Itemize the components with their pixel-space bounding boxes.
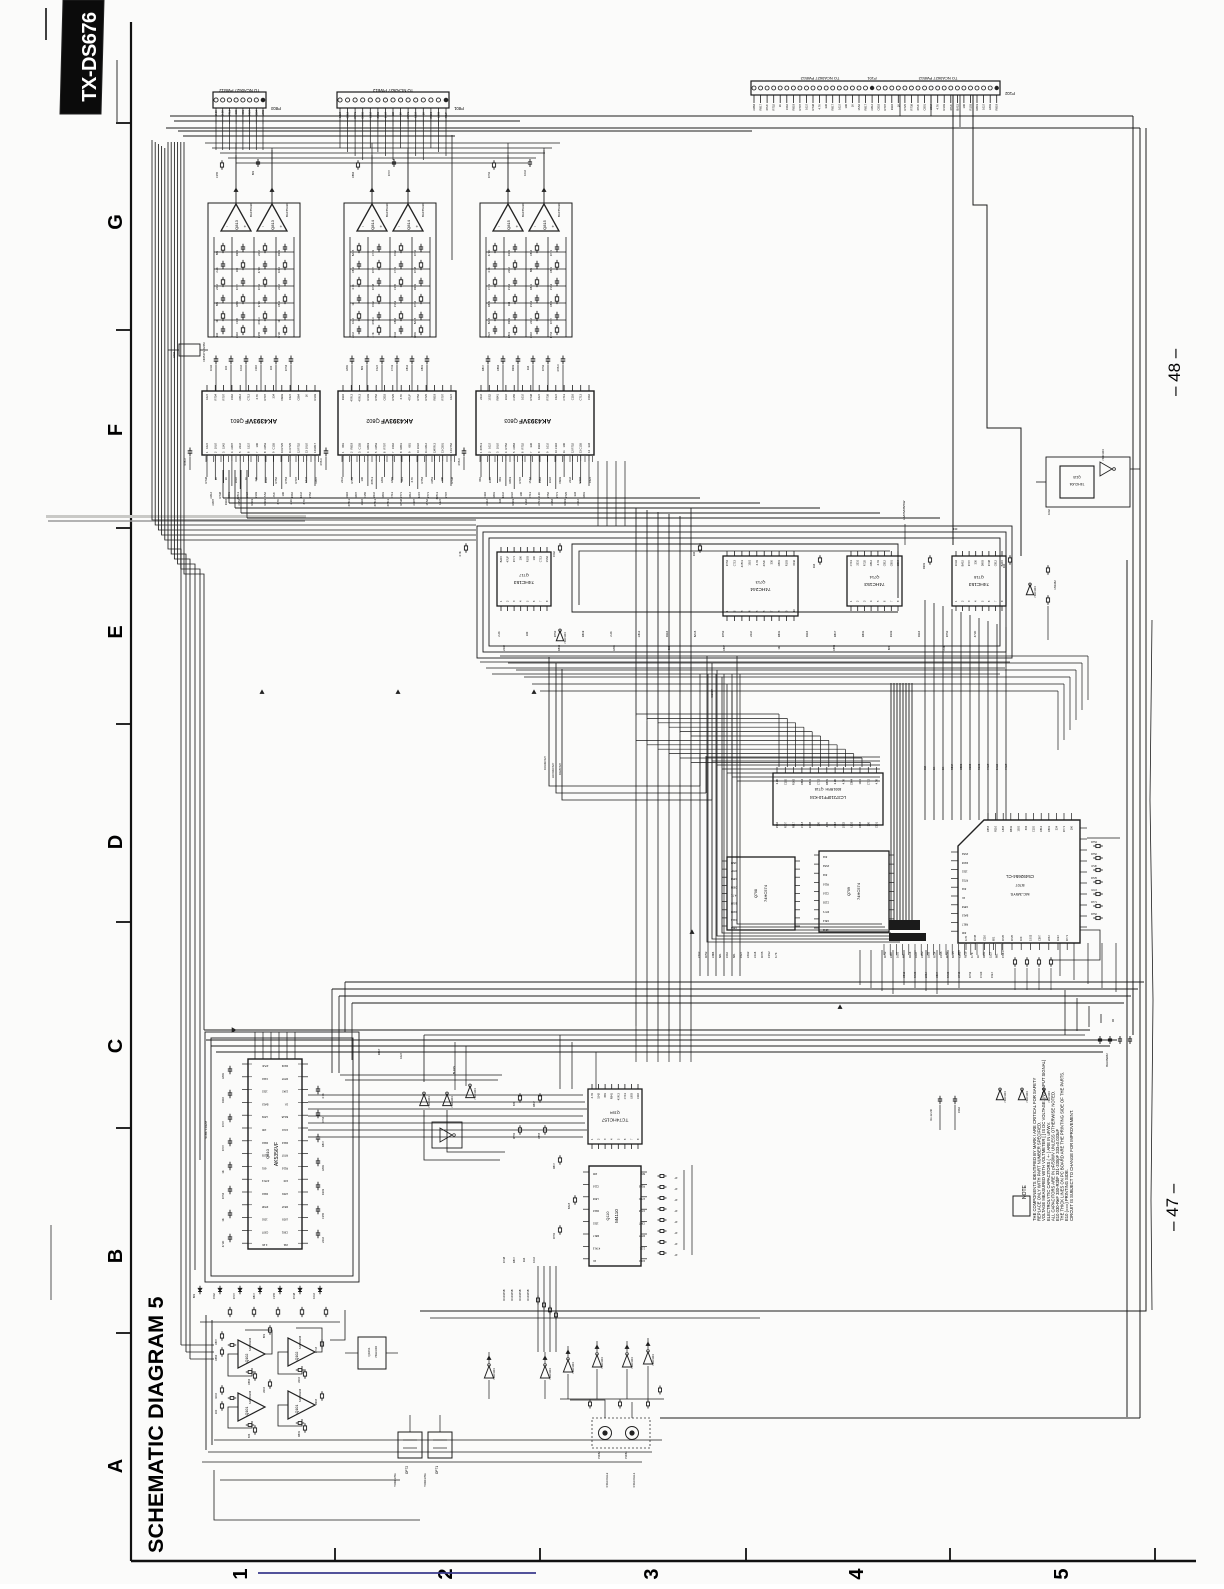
svg-text:R752: R752: [487, 171, 491, 178]
svg-text:D: D: [105, 835, 127, 849]
svg-text:C812: C812: [209, 492, 213, 499]
svg-text:R817: R817: [532, 1100, 536, 1107]
svg-text:R771: R771: [512, 555, 516, 562]
svg-text:R752: R752: [945, 951, 949, 958]
svg-text:1SS2: 1SS2: [549, 283, 553, 290]
svg-text:681: 681: [192, 1293, 196, 1298]
svg-text:1K: 1K: [214, 477, 218, 480]
svg-text:P3061: P3061: [624, 1451, 628, 1459]
svg-text:2.2K: 2.2K: [215, 267, 219, 273]
svg-text:100: 100: [1070, 825, 1074, 830]
svg-text:C853: C853: [549, 300, 553, 307]
svg-text:4.7K: 4.7K: [351, 284, 355, 290]
svg-text:102J: 102J: [261, 1090, 267, 1094]
svg-text:Q814: Q814: [370, 219, 375, 230]
svg-text:74HC574: 74HC574: [763, 884, 768, 902]
svg-text:152J: 152J: [438, 498, 442, 504]
svg-text:C864: C864: [296, 394, 300, 401]
svg-text:1542: 1542: [230, 394, 234, 400]
svg-text:R752: R752: [961, 878, 968, 882]
svg-text:C116: C116: [235, 331, 239, 338]
svg-text:C713: C713: [623, 1092, 627, 1099]
svg-text:152J: 152J: [375, 364, 379, 370]
svg-text:47/6.3: 47/6.3: [370, 477, 374, 485]
svg-text:100: 100: [519, 491, 523, 496]
svg-text:BA15: BA15: [955, 103, 959, 110]
svg-text:R817: R817: [961, 922, 968, 926]
svg-text:47/6.3: 47/6.3: [457, 458, 461, 466]
svg-text:C116: C116: [982, 935, 986, 941]
svg-text:C801: C801: [889, 559, 893, 566]
svg-text:BA15: BA15: [567, 1202, 571, 1209]
svg-text:74HC153: 74HC153: [514, 579, 535, 585]
svg-text:C713: C713: [866, 778, 870, 785]
svg-text:1SS2: 1SS2: [507, 283, 511, 290]
svg-text:C155: C155: [358, 443, 362, 450]
svg-text:C116: C116: [554, 443, 558, 450]
svg-text:+: +: [516, 224, 519, 229]
svg-text:TO NCA0627 PWB12: TO NCA0627 PWB12: [372, 88, 413, 93]
svg-text:R754: R754: [549, 331, 553, 338]
svg-text:C713: C713: [371, 249, 375, 256]
svg-text:223J: 223J: [856, 559, 860, 565]
svg-text:1542: 1542: [792, 559, 796, 565]
svg-text:C864: C864: [393, 317, 397, 324]
svg-text:R707: R707: [798, 104, 802, 111]
svg-text:R771: R771: [1091, 901, 1097, 904]
svg-text:152J: 152J: [730, 861, 736, 865]
svg-text:103J: 103J: [312, 1292, 316, 1298]
svg-text:R103: R103: [321, 1188, 325, 1195]
svg-text:R819: R819: [511, 499, 515, 506]
svg-text:L803: L803: [1001, 825, 1005, 831]
svg-text:47UF: 47UF: [986, 763, 990, 770]
svg-text:C713: C713: [538, 555, 542, 562]
svg-text:C812: C812: [424, 443, 428, 450]
svg-text:102J: 102J: [1056, 935, 1060, 941]
svg-text:1542: 1542: [725, 952, 729, 958]
svg-text:C713: C713: [732, 559, 736, 566]
svg-text:R707: R707: [232, 1292, 236, 1299]
svg-text:C155: C155: [512, 394, 516, 401]
svg-text:C853: C853: [730, 877, 737, 881]
svg-text:1542: 1542: [290, 492, 294, 498]
svg-text:R116: R116: [908, 951, 912, 958]
svg-text:C116: C116: [636, 1092, 640, 1099]
svg-text:47UF: 47UF: [949, 104, 953, 111]
svg-text:223J: 223J: [507, 266, 511, 272]
svg-text:C116: C116: [833, 821, 837, 827]
svg-text:152J: 152J: [988, 952, 992, 958]
svg-text:223J: 223J: [297, 1377, 301, 1383]
svg-text:TC74HC157: TC74HC157: [601, 1117, 628, 1123]
svg-text:R103: R103: [785, 559, 789, 566]
svg-text:BA15: BA15: [281, 1115, 288, 1119]
svg-text:330: 330: [1002, 563, 1006, 568]
svg-text:1542: 1542: [524, 499, 528, 505]
svg-text:C853: C853: [537, 1132, 541, 1139]
svg-text:R752: R752: [413, 249, 417, 256]
svg-text:47/6.3: 47/6.3: [432, 443, 436, 451]
svg-text:681: 681: [215, 301, 219, 306]
svg-text:B707: B707: [1016, 883, 1025, 887]
svg-text:BA15: BA15: [413, 317, 417, 324]
svg-text:3: 3: [641, 1568, 663, 1579]
svg-text:L803: L803: [282, 1218, 288, 1222]
svg-text:1542: 1542: [822, 928, 828, 932]
svg-text:330: 330: [215, 332, 219, 337]
svg-text:102J: 102J: [487, 442, 491, 448]
svg-text:74HCU04: 74HCU04: [651, 1354, 655, 1366]
svg-text:D903: D903: [507, 317, 511, 324]
svg-text:1542: 1542: [282, 1090, 288, 1094]
svg-text:74HCU04: 74HCU04: [571, 1362, 575, 1374]
svg-text:R754: R754: [1091, 841, 1097, 844]
svg-text:R752: R752: [296, 443, 300, 450]
svg-text:Q101: Q101: [295, 1405, 299, 1414]
svg-text:4.7K: 4.7K: [255, 394, 259, 400]
svg-text:4.7K: 4.7K: [590, 1093, 594, 1099]
svg-text:103J: 103J: [501, 491, 505, 497]
svg-text:C713: C713: [247, 394, 251, 401]
svg-text:CIRCUIT IS SUBJECT TO CHANGE F: CIRCUIT IS SUBJECT TO CHANGE FOR IMPROVE…: [1069, 1110, 1074, 1221]
svg-text:334: 334: [822, 855, 827, 859]
svg-text:102J: 102J: [414, 111, 418, 117]
svg-text:R754: R754: [221, 1192, 225, 1199]
svg-text:334: 334: [812, 563, 816, 568]
svg-text:R817: R817: [481, 364, 485, 371]
svg-text:C853: C853: [959, 763, 963, 770]
svg-text:MC-3/BYS: MC-3/BYS: [1010, 892, 1029, 897]
svg-text:681: 681: [732, 953, 736, 958]
svg-text:R841: R841: [808, 778, 812, 785]
svg-text:C116: C116: [254, 364, 258, 371]
svg-text:1542: 1542: [538, 477, 542, 483]
svg-text:L803: L803: [345, 365, 349, 371]
svg-text:C155: C155: [822, 901, 829, 905]
svg-text:C801: C801: [957, 951, 961, 958]
svg-text:LRCKDCS27: LRCKDCS27: [551, 762, 555, 778]
svg-text:C853: C853: [383, 394, 387, 401]
svg-text:C116: C116: [592, 1184, 598, 1188]
svg-text:BLR2N: BLR2N: [452, 1066, 456, 1074]
svg-text:C807: C807: [214, 1338, 218, 1345]
svg-text:74HCU04: 74HCU04: [630, 1357, 634, 1369]
svg-text:B: B: [105, 1249, 127, 1263]
svg-text:100: 100: [214, 1409, 218, 1414]
svg-text:102J: 102J: [338, 111, 342, 117]
svg-text:R819: R819: [349, 443, 353, 450]
svg-text:C853: C853: [263, 443, 267, 450]
svg-text:R817: R817: [950, 763, 954, 770]
svg-text:C713: C713: [390, 364, 394, 371]
svg-text:47UF: 47UF: [257, 300, 261, 307]
svg-text:R754: R754: [284, 477, 288, 484]
svg-text:1K: 1K: [305, 394, 309, 397]
svg-text:C713: C713: [487, 283, 491, 290]
svg-text:10UJ: 10UJ: [995, 763, 999, 770]
svg-text:NJM5532M: NJM5532M: [248, 1391, 252, 1404]
svg-text:L803: L803: [926, 952, 930, 958]
svg-text:1K: 1K: [421, 112, 425, 115]
svg-text:R752: R752: [308, 492, 312, 499]
svg-text:C801: C801: [507, 331, 511, 338]
svg-text:C864: C864: [214, 1354, 218, 1361]
svg-text:R817: R817: [512, 1256, 516, 1263]
svg-text:681: 681: [360, 365, 364, 370]
svg-text:Q709: Q709: [847, 887, 851, 896]
svg-text:681: 681: [408, 442, 412, 447]
svg-text:C807: C807: [211, 499, 215, 506]
svg-text:C713: C713: [849, 559, 853, 566]
svg-text:BA15: BA15: [961, 559, 965, 566]
svg-text:681: 681: [251, 170, 255, 175]
svg-text:47/6.3: 47/6.3: [386, 499, 390, 507]
svg-text:C155: C155: [579, 443, 583, 450]
svg-text:10UJ: 10UJ: [416, 442, 420, 449]
svg-text:R754: R754: [933, 951, 937, 958]
svg-text:47UF: 47UF: [262, 1064, 269, 1068]
svg-text:Q814: Q814: [406, 219, 411, 230]
svg-text:AK4393VF: AK4393VF: [519, 417, 551, 424]
svg-text:R752: R752: [772, 104, 776, 111]
svg-text:334: 334: [507, 301, 511, 306]
svg-text:C812: C812: [405, 364, 409, 371]
svg-text:74HC244: 74HC244: [750, 586, 771, 592]
svg-text:R738: R738: [909, 104, 913, 111]
svg-text:C853: C853: [986, 825, 990, 832]
svg-text:C812: C812: [346, 112, 350, 119]
svg-text:4.7K: 4.7K: [731, 894, 737, 898]
svg-text:100: 100: [224, 365, 228, 370]
svg-text:2.2K: 2.2K: [214, 110, 218, 116]
svg-text:R738: R738: [292, 1292, 296, 1299]
svg-text:Q115: Q115: [1073, 475, 1081, 479]
svg-text:R725: R725: [424, 394, 428, 401]
svg-text:R738: R738: [811, 104, 815, 111]
svg-text:R738: R738: [399, 499, 403, 506]
svg-text:C155: C155: [939, 951, 943, 958]
svg-text:NJM5532M: NJM5532M: [248, 1338, 252, 1351]
svg-text:C801: C801: [875, 821, 879, 828]
svg-text:1SS2: 1SS2: [841, 821, 845, 828]
svg-text:1542: 1542: [212, 1293, 216, 1299]
svg-text:681: 681: [215, 250, 219, 255]
svg-text:1SS2: 1SS2: [1028, 934, 1032, 941]
svg-text:C864: C864: [730, 926, 737, 930]
svg-text:R817: R817: [252, 1292, 256, 1299]
svg-text:47UF: 47UF: [408, 394, 412, 401]
svg-text:1542: 1542: [597, 1092, 601, 1098]
svg-text:1SS2: 1SS2: [393, 300, 397, 307]
svg-text:47/6.3: 47/6.3: [261, 1179, 269, 1183]
svg-text:+: +: [280, 224, 283, 229]
svg-text:NJM5532M: NJM5532M: [298, 1389, 302, 1402]
svg-text:R707: R707: [518, 477, 522, 484]
svg-text:10UJ: 10UJ: [954, 559, 958, 566]
svg-text:47UF: 47UF: [1004, 763, 1008, 770]
svg-text:47/6.3: 47/6.3: [592, 1246, 600, 1250]
svg-text:R103: R103: [507, 249, 511, 256]
svg-text:R707: R707: [281, 1154, 288, 1158]
svg-text:L803: L803: [850, 821, 854, 827]
svg-text:681: 681: [992, 936, 996, 941]
svg-text:681: 681: [261, 1166, 266, 1170]
svg-text:102J: 102J: [747, 559, 751, 565]
svg-text:R819: R819: [975, 104, 979, 111]
svg-text:L803: L803: [282, 1192, 288, 1196]
svg-text:223J: 223J: [340, 476, 344, 482]
svg-text:47UF: 47UF: [638, 1197, 645, 1201]
svg-text:74HCU04: 74HCU04: [600, 1357, 604, 1369]
svg-text:R103: R103: [889, 630, 893, 637]
svg-text:C864: C864: [512, 443, 516, 450]
svg-text:R817: R817: [377, 1048, 381, 1055]
svg-text:TO NCA0627 PWB12: TO NCA0627 PWB12: [800, 76, 839, 81]
svg-text:R752: R752: [570, 443, 574, 450]
svg-text:NCB471-R22M: NCB471-R22M: [204, 1121, 208, 1139]
svg-text:4.7K: 4.7K: [276, 499, 280, 505]
svg-text:10UJ: 10UJ: [496, 442, 500, 449]
svg-text:334: 334: [1024, 825, 1028, 830]
svg-text:330: 330: [254, 476, 258, 481]
svg-text:C: C: [105, 1039, 127, 1053]
svg-text:R771: R771: [353, 112, 357, 119]
svg-text:R819: R819: [487, 300, 491, 307]
svg-text:+: +: [244, 224, 247, 229]
svg-text:R707: R707: [549, 317, 553, 324]
svg-text:5: 5: [1051, 1568, 1073, 1579]
svg-text:10UJ: 10UJ: [393, 331, 397, 338]
svg-text:330: 330: [974, 559, 978, 564]
svg-text:1K: 1K: [285, 1102, 288, 1106]
svg-text:C155: C155: [783, 778, 787, 785]
svg-text:C5492654-CL: C5492654-CL: [1005, 874, 1034, 879]
svg-text:100: 100: [532, 555, 536, 560]
svg-text:330: 330: [961, 931, 966, 935]
svg-text:P803: P803: [270, 106, 280, 111]
svg-text:10UJ: 10UJ: [209, 364, 213, 371]
svg-text:R841: R841: [610, 1092, 614, 1099]
svg-text:1SS352: 1SS352: [1053, 580, 1057, 590]
svg-text:BLR2N1B2: BLR2N1B2: [1105, 1053, 1109, 1067]
svg-text:R752: R752: [504, 443, 508, 450]
svg-text:4.7K: 4.7K: [410, 477, 414, 483]
svg-text:C812: C812: [351, 266, 355, 273]
svg-text:R819: R819: [791, 104, 795, 111]
svg-text:R725: R725: [760, 951, 764, 958]
svg-text:BA15: BA15: [951, 951, 955, 958]
svg-text:Q102: Q102: [245, 1354, 249, 1363]
svg-text:R752: R752: [449, 443, 453, 450]
svg-text:681: 681: [603, 1092, 607, 1097]
svg-text:R116: R116: [805, 630, 809, 637]
svg-text:152J: 152J: [288, 393, 292, 399]
svg-text:Q803: Q803: [504, 417, 517, 423]
svg-text:103J: 103J: [261, 1218, 267, 1222]
svg-text:COAXIAL1: COAXIAL1: [632, 1472, 636, 1487]
svg-text:10UJ: 10UJ: [213, 442, 217, 449]
svg-text:C812: C812: [822, 919, 829, 923]
svg-text:102J: 102J: [537, 393, 541, 399]
svg-text:R771: R771: [399, 492, 403, 499]
svg-text:AK4393VF: AK4393VF: [381, 417, 413, 424]
svg-text:R752: R752: [1091, 853, 1097, 856]
svg-text:C801: C801: [1047, 825, 1051, 832]
svg-text:D903: D903: [280, 394, 284, 401]
svg-text:4.7K: 4.7K: [875, 779, 879, 785]
svg-text:1542: 1542: [222, 443, 226, 449]
svg-text:1SS2: 1SS2: [767, 951, 771, 958]
svg-text:D903: D903: [361, 112, 365, 119]
svg-text:1K: 1K: [221, 1218, 225, 1221]
svg-text:TX-DS676: TX-DS676: [79, 12, 101, 102]
svg-text:R1016SB: R1016SB: [510, 1289, 514, 1300]
svg-text:R738: R738: [987, 559, 991, 566]
svg-text:C713: C713: [537, 499, 541, 506]
svg-text:47/6.3: 47/6.3: [479, 443, 483, 451]
svg-text:Q815: Q815: [542, 219, 547, 230]
svg-text:681: 681: [640, 1172, 645, 1176]
svg-text:R752: R752: [416, 394, 420, 401]
svg-text:C155: C155: [272, 443, 276, 450]
svg-text:2.2K: 2.2K: [221, 110, 225, 116]
svg-text:10UJ: 10UJ: [638, 1259, 645, 1263]
svg-text:C713: C713: [390, 492, 394, 499]
svg-text:102J: 102J: [399, 1052, 403, 1058]
svg-text:1K: 1K: [593, 1259, 596, 1263]
svg-text:R752: R752: [541, 364, 545, 371]
svg-text:R725: R725: [288, 443, 292, 450]
svg-text:R725: R725: [903, 104, 907, 111]
svg-text:C812: C812: [870, 104, 874, 111]
svg-text:C807: C807: [1038, 934, 1042, 941]
svg-text:C864: C864: [550, 499, 554, 506]
svg-text:47/6.3: 47/6.3: [358, 394, 362, 402]
svg-text:R707: R707: [235, 283, 239, 290]
svg-text:74HCU04: 74HCU04: [492, 1368, 496, 1380]
svg-text:334: 334: [923, 765, 927, 770]
svg-text:BA15: BA15: [961, 914, 968, 918]
svg-text:R725: R725: [1001, 934, 1005, 941]
svg-text:C864: C864: [496, 364, 500, 371]
svg-text:C155: C155: [393, 283, 397, 290]
svg-text:4.7K: 4.7K: [841, 779, 845, 785]
svg-text:R738: R738: [502, 1256, 506, 1263]
svg-text:102J: 102J: [961, 870, 967, 874]
svg-text:C807: C807: [638, 1222, 645, 1226]
svg-text:R752: R752: [512, 1132, 516, 1139]
svg-text:Q801: Q801: [230, 417, 243, 423]
svg-text:103J: 103J: [914, 952, 918, 958]
svg-text:152J: 152J: [554, 393, 558, 399]
svg-text:R817: R817: [864, 104, 868, 111]
svg-text:M4110: M4110: [614, 1209, 619, 1223]
svg-text:C853: C853: [237, 499, 241, 506]
svg-text:4.7K: 4.7K: [936, 104, 940, 110]
svg-text:BA15: BA15: [417, 491, 421, 498]
svg-text:Q718: Q718: [973, 575, 984, 580]
svg-text:R819: R819: [563, 499, 567, 506]
svg-text:R841: R841: [982, 951, 986, 958]
svg-text:152J: 152J: [487, 331, 491, 337]
svg-text:R707: R707: [294, 477, 298, 484]
svg-text:C807: C807: [261, 1230, 268, 1234]
svg-text:R752: R752: [521, 443, 525, 450]
svg-text:R752: R752: [1091, 913, 1097, 916]
svg-text:330: 330: [953, 527, 958, 531]
svg-text:LS/RS/RB/SW: LS/RS/RB/SW: [902, 500, 906, 520]
